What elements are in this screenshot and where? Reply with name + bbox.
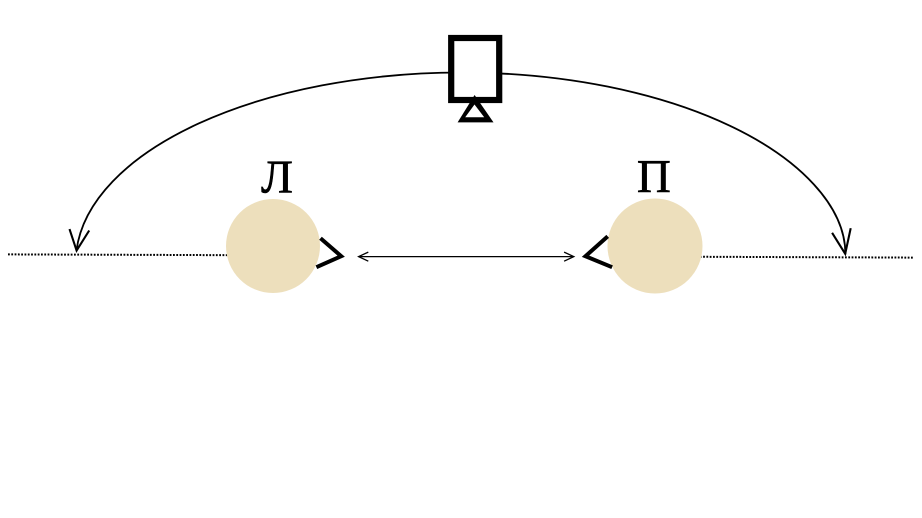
gaze arrowhead left: [359, 252, 369, 261]
arc arrowhead left: [70, 229, 90, 251]
axis dotted line right segment: [680, 256, 914, 259]
camera tripod triangle inner: [465, 105, 484, 118]
axis dotted line left segment: [8, 254, 300, 255]
label L (Cyrillic): [261, 162, 291, 193]
head right (circle): [608, 199, 703, 294]
camera body: [451, 38, 499, 100]
arc arrowhead right: [832, 228, 851, 254]
nose right: [586, 236, 613, 267]
camera tripod triangle: [458, 95, 494, 122]
gaze arrowhead right: [564, 252, 574, 261]
head left (circle): [226, 199, 320, 293]
gaze double arrow line: [359, 256, 574, 258]
nose left: [316, 238, 341, 267]
camera movement arc: [76, 73, 845, 255]
label P (Cyrillic): [638, 161, 669, 192]
